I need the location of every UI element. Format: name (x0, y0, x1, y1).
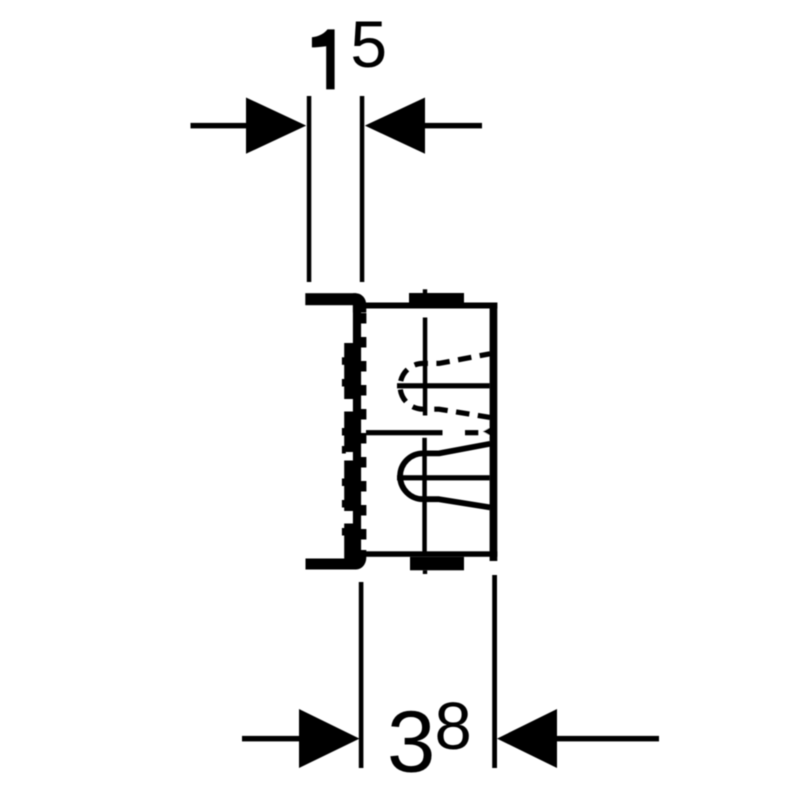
top dimension tail line right (425, 123, 482, 128)
body bottom wall line (364, 551, 497, 557)
rail hidden edge dashes (right of bar) (361, 313, 366, 540)
panel tip notch (white wedge in wall) (480, 423, 495, 441)
top dimension arrow right (365, 98, 425, 154)
rail top flange (305, 293, 356, 305)
body bottom tab (410, 557, 464, 571)
rail serrated strip segments (left of bar) (344, 343, 353, 559)
top dimension arrow left (246, 98, 306, 154)
body top tab (409, 293, 464, 305)
svg-text:8: 8 (435, 689, 472, 764)
rail vertical bar (353, 303, 361, 558)
bottom extension line left (359, 582, 364, 768)
bottom extension line right (492, 575, 497, 768)
right wall (490, 303, 498, 562)
inner horizontal line L3 (397, 475, 490, 480)
centre line lower segment (422, 438, 427, 553)
bottom dimension arrow left (299, 709, 360, 768)
centre line bottom tick (423, 570, 427, 574)
spring clip (solid U hook) (400, 444, 490, 508)
bottom dimension tail line right (557, 736, 659, 742)
rail bottom flange (306, 559, 357, 570)
svg-text:5: 5 (350, 7, 387, 81)
top extension line left (307, 96, 312, 282)
bottom dimension arrow right (497, 709, 557, 768)
bottom dimension tail line left (242, 736, 302, 742)
spring clip hidden position (dashed U) (400, 354, 490, 418)
top dimension tail line left (191, 123, 248, 128)
centre line upper segment (423, 318, 428, 416)
rail serration teeth tips (342, 357, 346, 535)
centre line top tick (423, 289, 427, 293)
body top wall line (364, 303, 497, 309)
panel edge hidden dash (465, 430, 478, 435)
inner horizontal line L1 (397, 383, 490, 388)
inner horizontal line L2 (panel edge) (366, 430, 443, 435)
svg-text:3: 3 (387, 693, 435, 790)
top extension line right (360, 96, 365, 282)
panel tip arrow (483, 425, 495, 439)
dimension text 1 (value 1.5, main digit) (312, 29, 335, 89)
